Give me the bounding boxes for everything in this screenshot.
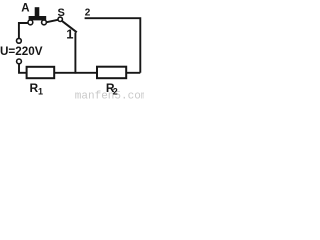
resistor R2 bbox=[97, 67, 126, 79]
svg-text:2: 2 bbox=[113, 87, 118, 97]
switch S pivot bbox=[58, 17, 62, 21]
push button switch A bbox=[28, 7, 46, 25]
wire from contact 1 down to bottom rail bbox=[74, 33, 76, 74]
svg-text:1: 1 bbox=[66, 27, 73, 42]
voltage source lower terminal bbox=[17, 59, 22, 64]
svg-text:2: 2 bbox=[85, 8, 91, 19]
svg-text:A: A bbox=[21, 2, 29, 14]
bottom rail wire from R1 to R2 with junction of contact-1 wire bbox=[54, 72, 96, 74]
wire from upper source terminal up and right to push button bbox=[19, 23, 28, 38]
svg-text:1: 1 bbox=[38, 86, 43, 96]
resistor R1 bbox=[27, 67, 55, 78]
wire from R2 to right rail bbox=[126, 72, 140, 74]
wire from push button to switch pivot bbox=[47, 20, 58, 22]
voltage source upper terminal bbox=[17, 38, 22, 43]
switch S blade to contact 1 bbox=[62, 21, 77, 32]
wire from contact 2 right and down to R2 output bbox=[85, 18, 141, 73]
svg-text:U=220V: U=220V bbox=[0, 44, 43, 58]
wire from lower source terminal down and right to R1 bbox=[19, 64, 26, 73]
